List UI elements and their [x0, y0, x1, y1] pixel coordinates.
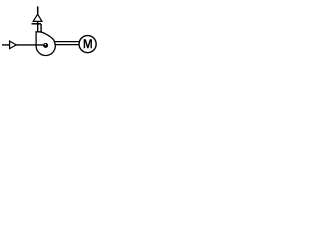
- wire: vent stub above arrow: [37, 6, 39, 14]
- wire: discharge pipe left line from arrow to pump top: [37, 21, 39, 32]
- flow arrow (hollow triangle pointing right): [10, 41, 17, 49]
- pump P1 (centrifugal pump casing with volute): [36, 32, 55, 56]
- wire: shaft coupling upper line: [54, 41, 80, 43]
- motor label M: [84, 39, 92, 48]
- wire: discharge pipe right line from tick to pump top: [40, 24, 42, 32]
- motor M1 (circle): [79, 36, 96, 53]
- vent tick (horizontal bar): [32, 23, 42, 25]
- wire: suction line from left edge: [2, 44, 44, 46]
- vent arrow (hollow triangle pointing up): [33, 14, 42, 21]
- pump hub dot: [43, 43, 48, 48]
- wire: shaft coupling lower line: [54, 44, 79, 46]
